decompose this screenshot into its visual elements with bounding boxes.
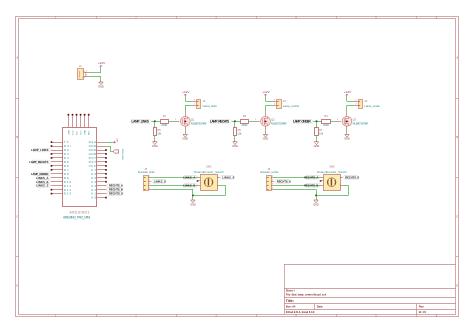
svg-text:A: A [456, 56, 458, 60]
svg-text:RECHTS_S: RECHTS_S [345, 175, 359, 179]
svg-text:B: B [456, 135, 458, 139]
svg-text:+5V: +5V [117, 138, 119, 142]
svg-text:GND: GND [183, 138, 189, 141]
svg-text:1: 1 [337, 119, 338, 121]
svg-text:A0: A0 [91, 196, 96, 200]
svg-text:RLB8731PBF: RLB8731PBF [191, 122, 207, 126]
svg-text:+12V: +12V [182, 90, 190, 94]
svg-text:KiCad E.D.A. kicad 6.0.9: KiCad E.D.A. kicad 6.0.9 [286, 311, 315, 314]
svg-text:TXO: TXO [72, 130, 74, 135]
svg-text:1: 1 [274, 99, 275, 101]
svg-text:Lamp_links: Lamp_links [203, 104, 218, 108]
svg-text:+12V: +12V [98, 61, 106, 65]
svg-text:Title:: Title: [286, 299, 294, 303]
svg-text:LAMP_RECHTS: LAMP_RECHTS [29, 160, 48, 164]
svg-text:LAMP_ONDER: LAMP_ONDER [31, 172, 49, 176]
svg-text:GRN: GRN [68, 130, 70, 135]
svg-text:LAMP_LINKS: LAMP_LINKS [132, 119, 150, 123]
svg-text:2: 2 [86, 75, 87, 77]
svg-text:VCC: VCC [81, 130, 83, 135]
svg-text:LAMP_ONDER: LAMP_ONDER [293, 119, 311, 123]
svg-text:1: 1 [255, 119, 256, 121]
svg-text:GND: GND [85, 130, 87, 135]
svg-text:RECHTS_B: RECHTS_B [109, 188, 123, 192]
svg-text:SW1: SW1 [206, 165, 212, 168]
svg-text:LINKS_B: LINKS_B [36, 180, 48, 184]
svg-text:LINKS_S: LINKS_S [154, 179, 166, 183]
svg-text:RotaryEncoder_Switch: RotaryEncoder_Switch [317, 170, 347, 174]
svg-text:D13: D13 [64, 192, 72, 196]
svg-text:LAMP_RECHTS: LAMP_RECHTS [210, 119, 229, 123]
svg-text:GND: GND [344, 138, 350, 141]
svg-text:Encoder_links: Encoder_links [138, 170, 155, 174]
svg-text:LINKS_S: LINKS_S [36, 184, 48, 188]
svg-text:220R: 220R [161, 124, 167, 127]
svg-text:RECHTS_S: RECHTS_S [109, 192, 123, 196]
svg-text:BLK: BLK [89, 130, 91, 135]
svg-text:3: 3 [149, 184, 150, 186]
svg-text:Date:: Date: [317, 305, 323, 308]
svg-text:2: 2 [355, 103, 356, 105]
svg-text:+12V: +12V [262, 90, 270, 94]
svg-text:2: 2 [272, 180, 273, 182]
svg-text:Lamp_rechts: Lamp_rechts [283, 104, 300, 108]
svg-text:Lamp_onder: Lamp_onder [364, 104, 380, 108]
svg-text:1: 1 [194, 99, 195, 101]
svg-text:4: 4 [272, 188, 273, 190]
svg-text:RECHTS_B: RECHTS_B [304, 183, 318, 187]
svg-text:RECHTS_A: RECHTS_A [109, 184, 123, 188]
svg-text:GND: GND [263, 138, 269, 141]
svg-text:LINKS_A: LINKS_A [183, 175, 195, 179]
svg-text:B: B [16, 135, 18, 139]
svg-text:4: 4 [149, 188, 150, 190]
svg-text:2: 2 [274, 103, 275, 105]
svg-text:GND: GND [232, 145, 238, 148]
svg-text:GND: GND [98, 85, 104, 88]
svg-text:GND: GND [152, 145, 158, 148]
svg-text:D: D [456, 284, 458, 288]
svg-text:RECHTS_S: RECHTS_S [277, 179, 291, 183]
svg-text:RotaryEncoder_Switch: RotaryEncoder_Switch [194, 170, 224, 174]
svg-text:GND: GND [190, 203, 196, 206]
svg-text:2: 2 [149, 180, 150, 182]
svg-text:ARDUINO1: ARDUINO1 [70, 211, 90, 215]
svg-text:Encoder_rechts: Encoder_rechts [260, 170, 279, 174]
svg-text:Size: A4: Size: A4 [286, 305, 296, 308]
svg-text:220R: 220R [323, 124, 329, 127]
svg-text:2: 2 [194, 103, 195, 105]
svg-text:GND: GND [314, 145, 320, 148]
svg-text:220R: 220R [242, 124, 248, 127]
svg-text:A: A [16, 56, 18, 60]
svg-text:LINKS_S: LINKS_S [222, 175, 234, 179]
svg-text:3: 3 [272, 184, 273, 186]
svg-text:1: 1 [355, 99, 356, 101]
svg-text:RLB8731PBF: RLB8731PBF [353, 122, 369, 126]
svg-text:LAMP_LINKS: LAMP_LINKS [31, 148, 49, 152]
svg-text:Rev:: Rev: [419, 305, 425, 308]
svg-text:1: 1 [149, 176, 150, 178]
svg-text:LINKS_A: LINKS_A [36, 176, 48, 180]
svg-text:C: C [456, 215, 458, 219]
svg-text:SW2: SW2 [329, 165, 335, 168]
svg-text:File: Bad_lamp_control.kicad_s: File: Bad_lamp_control.kicad_sch [286, 293, 327, 296]
svg-text:LINKS_B: LINKS_B [183, 183, 195, 187]
svg-text:Id: 1/1: Id: 1/1 [419, 311, 427, 314]
svg-text:1: 1 [86, 70, 87, 72]
svg-text:RECHTS_A: RECHTS_A [304, 175, 318, 179]
svg-text:RLB8731PBF: RLB8731PBF [271, 122, 287, 126]
svg-text:C: C [16, 215, 18, 219]
svg-text:D: D [16, 284, 18, 288]
svg-text:1: 1 [272, 176, 273, 178]
svg-text:1: 1 [175, 119, 176, 121]
svg-text:+12V: +12V [344, 90, 352, 94]
svg-text:ARDUINO_PRO_MINI: ARDUINO_PRO_MINI [63, 215, 90, 219]
svg-text:RXI: RXI [76, 131, 78, 135]
svg-text:GND: GND [313, 203, 319, 206]
svg-text:Sheet: /: Sheet: / [286, 289, 295, 292]
